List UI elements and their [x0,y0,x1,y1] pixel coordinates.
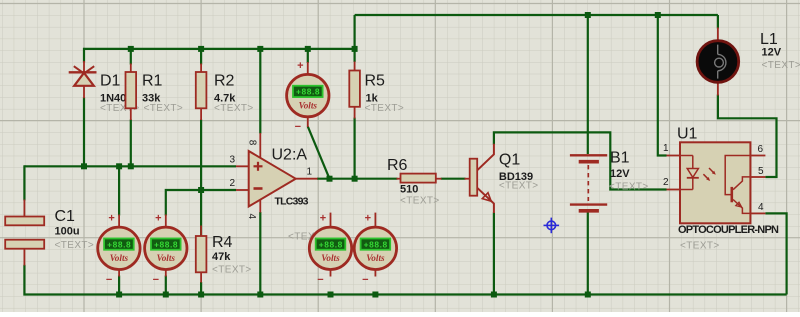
svg-text:12V: 12V [610,168,630,180]
junction ground / VM2 [163,292,169,298]
diode D1 1N4007 [69,61,140,114]
wire U1 pin4 to ground bus [765,213,786,294]
svg-text:Volts: Volts [366,253,385,263]
svg-text:TLC393: TLC393 [275,195,309,207]
transistor Q1 BD139 [465,144,539,213]
svg-text:+88.8: +88.8 [296,87,320,97]
svg-text:2: 2 [663,177,669,188]
wire R6 to Q1 base [441,178,466,180]
wire voltmeter VM2 plus to op-amp pin2 line [166,190,236,216]
junction top bus / battery [585,12,591,18]
svg-text:+88.8: +88.8 [107,239,131,249]
wire C1 bottom to ground bus [24,265,786,295]
svg-text:<TEXT>: <TEXT> [680,241,720,252]
junction output / R5 [352,176,358,182]
wire Q1 emitter to ground [493,213,495,295]
junction V+ bus / R5 riser [352,46,358,52]
junction top bus / U1 pin1 [655,12,661,18]
svg-text:<TEXT>: <TEXT> [609,181,649,192]
svg-text:<TEXT>: <TEXT> [214,103,254,114]
svg-text:Q1: Q1 [499,152,520,169]
svg-text:<TEXT>: <TEXT> [499,181,539,192]
junction V+ bus / VM0 [305,46,311,52]
resistor R2 4.7k [196,64,254,121]
wire R4 bottom [200,282,202,295]
svg-text:+: + [155,213,161,225]
wire lamp L1 top [717,15,719,29]
wire V+ bus (D1..R5) [83,48,355,50]
svg-text:+88.8: +88.8 [364,239,388,249]
junction ground / VM3 [328,292,334,298]
wire voltmeter VM0 minus diagonal to output node [308,127,330,179]
svg-text:12V: 12V [762,47,782,59]
resistor R6 510 [387,157,442,207]
voltmeter VM0 (top) [287,60,329,133]
svg-text:C1: C1 [55,208,76,225]
junction ground / VM4 [372,292,378,298]
svg-text:<TEXT>: <TEXT> [365,103,405,114]
svg-text:<TEXT>: <TEXT> [212,265,252,276]
wire voltmeter VM0 plus [307,49,309,63]
resistor R4 47k [196,226,252,283]
svg-text:1: 1 [663,143,669,154]
wire lamp L1 bottom to U1 pin5 [718,95,777,178]
junction ground / battery [585,292,591,298]
svg-text:+: + [108,213,114,225]
wire op-amp pin3 node line [24,165,236,167]
svg-text:Volts: Volts [299,100,318,110]
wire R1 top [130,49,132,65]
svg-text:4: 4 [246,214,257,220]
wire D1 bottom to node line [83,97,85,166]
wire battery B1 bottom to ground [587,212,589,295]
svg-text:−: − [317,274,323,286]
svg-text:+88.8: +88.8 [319,239,343,249]
battery B1 12V [570,150,649,211]
wire op-amp V+ to bus [259,49,261,134]
wire R1 bottom [130,120,132,167]
wire R2 bottom to R4 top [200,120,202,237]
svg-text:+88.8: +88.8 [154,239,178,249]
svg-text:<TEXT>: <TEXT> [55,240,95,251]
voltmeter VM1 [98,213,140,286]
wire U1 pin1 from top bus [658,15,667,156]
op-amp U2:A TLC393 [229,133,317,220]
wire riser from V+ bus to top bus [354,15,356,49]
resistor R1 33k [126,64,184,121]
wire R5 bottom to output node [354,118,356,179]
junction V+ bus / R2 [198,46,204,52]
junction node line / VM1 [116,163,122,169]
wire op-amp V- to ground [259,212,261,295]
svg-text:R5: R5 [365,73,386,90]
capacitor C1 100u [5,200,94,266]
junction ground / Q1 emitter [491,292,497,298]
optocoupler U1 OPTOCOUPLER-NPN [663,126,779,252]
svg-text:B1: B1 [610,150,630,167]
svg-text:8: 8 [247,140,258,146]
junction node line / R1 [128,163,134,169]
svg-text:R1: R1 [142,73,163,90]
svg-text:<TEXT>: <TEXT> [762,60,800,71]
wire top bus from R5 node to lamp L1 [355,14,718,16]
svg-text:<TEXT>: <TEXT> [400,196,440,207]
resistor R5 1k [349,62,404,119]
svg-text:R4: R4 [212,234,233,251]
wire R5 top [354,49,356,62]
svg-text:4: 4 [758,202,764,213]
svg-text:Volts: Volts [321,253,340,263]
svg-text:OPTOCOUPLER-NPN: OPTOCOUPLER-NPN [678,224,779,236]
wire voltmeter VM1 plus [118,166,120,215]
wire C1 top [23,165,25,200]
wire D1 top [83,48,85,63]
svg-text:Volts: Volts [110,253,129,263]
junction node line / D1 [81,163,87,169]
svg-text:L1: L1 [760,31,778,48]
svg-text:1: 1 [307,167,313,178]
wire voltmeter VM1 minus [118,276,120,295]
svg-text:+: + [365,213,371,225]
svg-text:R2: R2 [214,73,235,90]
wire R2 top [200,49,202,65]
voltmeter VM2 [145,213,187,286]
svg-text:−: − [153,274,159,286]
svg-text:2: 2 [229,178,235,189]
svg-text:−: − [362,274,368,286]
junction V+ bus / op-amp V+ [257,46,263,52]
junction ground / VM1 [116,292,122,298]
junction V+ bus / R1 [128,46,134,52]
junction pin2 line / R2-R4 [198,187,204,193]
junction output / VM0 minus [327,176,333,182]
svg-text:5: 5 [758,166,764,177]
svg-text:510: 510 [400,184,418,196]
origin marker (blue crosshair) [544,218,560,234]
svg-text:47k: 47k [212,251,231,263]
svg-text:−: − [106,274,112,286]
svg-text:U2:A: U2:A [272,146,308,163]
junction ground / R4 [198,292,204,298]
svg-text:6: 6 [757,144,763,155]
lamp L1 12V [697,28,800,96]
svg-text:U1: U1 [677,126,698,143]
junction ground / op-amp V- [257,292,263,298]
svg-text:R6: R6 [387,157,408,174]
svg-text:−: − [295,121,301,133]
svg-text:100u: 100u [55,226,80,238]
wire op-amp output to R6 [317,178,398,180]
wire Q1 collector to U1 pin2 [494,132,667,189]
svg-text:+: + [297,60,303,72]
svg-text:+: + [320,213,326,225]
svg-text:D1: D1 [100,73,121,90]
wire voltmeter VM2 minus [165,276,167,295]
wire battery B1 top [587,15,589,154]
voltmeter VM3 [288,213,352,286]
svg-text:<TEXT>: <TEXT> [144,103,184,114]
svg-text:3: 3 [229,155,235,166]
svg-text:Volts: Volts [157,253,176,263]
voltmeter VM4 [354,213,396,286]
